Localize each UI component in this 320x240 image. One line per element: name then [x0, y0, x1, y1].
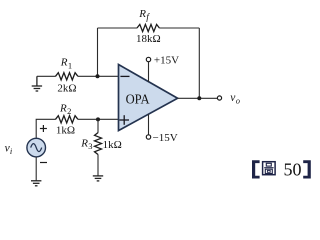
- ground (source): [31, 181, 41, 186]
- wire R1 to op-amp inverting input: [78, 75, 119, 77]
- resistor Rf: [137, 24, 159, 31]
- wire output: [178, 97, 218, 99]
- wire source top corner: [36, 119, 56, 138]
- figure caption right bracket: [303, 160, 311, 178]
- svg-text:50: 50: [284, 160, 302, 180]
- svg-text:+15V: +15V: [154, 54, 179, 66]
- sine wave inside source: [31, 144, 42, 152]
- wire R2 to op-amp non-inverting input: [78, 118, 119, 120]
- figure caption left bracket: [252, 160, 260, 178]
- svg-text:1kΩ: 1kΩ: [56, 125, 75, 137]
- wire feedback left vertical: [97, 28, 99, 76]
- svg-text:R: R: [80, 137, 88, 149]
- svg-text:R: R: [138, 8, 146, 20]
- terminal vo: [217, 96, 221, 100]
- wire feedback top horizontal left segment: [98, 27, 138, 29]
- figure caption character tu (picture): [263, 162, 276, 175]
- wire feedback top horizontal right segment: [159, 27, 199, 29]
- wire feedback right vertical: [198, 28, 200, 98]
- resistor R2: [56, 116, 78, 123]
- svg-text:OPA: OPA: [126, 92, 150, 107]
- svg-text:1: 1: [68, 60, 72, 70]
- op-amp non-inverting input mark: [119, 115, 129, 125]
- plus polarity mark: [40, 125, 47, 132]
- svg-text:18kΩ: 18kΩ: [136, 33, 161, 45]
- op-amp inverting input mark: [120, 75, 129, 77]
- minus polarity mark: [40, 162, 47, 164]
- wire +15V stem: [148, 62, 150, 82]
- svg-text:o: o: [236, 95, 240, 105]
- node junction R2/R3: [96, 117, 100, 121]
- terminal -15V: [146, 135, 150, 139]
- svg-text:2kΩ: 2kΩ: [57, 82, 76, 94]
- op-amp U1: [119, 65, 178, 131]
- svg-text:R: R: [60, 57, 68, 69]
- svg-text:3: 3: [88, 141, 92, 151]
- ground (R3): [93, 176, 103, 181]
- svg-text:R: R: [59, 102, 67, 114]
- wire -15V stem: [148, 114, 150, 134]
- source vi: [27, 138, 46, 157]
- svg-text:1kΩ: 1kΩ: [103, 139, 122, 151]
- node junction R1/Rf: [96, 74, 100, 78]
- svg-text:−15V: −15V: [153, 132, 178, 144]
- ground (R1 input): [32, 76, 42, 91]
- node junction output/feedback: [197, 96, 201, 100]
- wire R3 to ground: [97, 154, 99, 175]
- resistor R3: [95, 133, 102, 155]
- svg-text:2: 2: [67, 106, 71, 116]
- wire from ground to R1: [37, 75, 56, 77]
- resistor R1: [56, 73, 78, 80]
- svg-text:i: i: [10, 146, 13, 156]
- wire junction to R3: [97, 119, 99, 132]
- svg-text:f: f: [146, 12, 150, 23]
- wire source bottom to ground: [35, 157, 37, 181]
- terminal +15V: [146, 57, 150, 61]
